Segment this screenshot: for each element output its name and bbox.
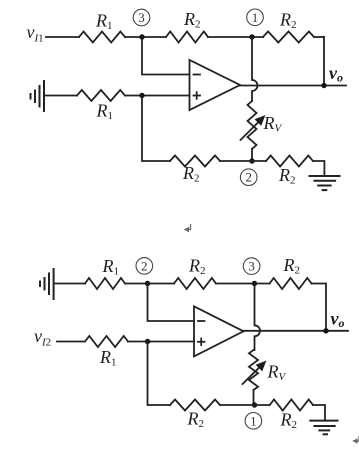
svg-text:vI1: vI1	[27, 22, 44, 45]
wire noninverting node down to bottom rail	[148, 342, 171, 406]
wire ground to R1	[54, 283, 85, 285]
paragraph return mark (between circuits)	[184, 225, 191, 233]
wire node 2 down to inverting input	[148, 284, 195, 322]
svg-text:R2: R2	[187, 409, 205, 431]
node at noninverting input	[139, 93, 144, 98]
node 3 junction dot	[139, 34, 144, 39]
node vI1 input label	[27, 22, 44, 45]
wire node 1 down with crossover hop over output	[252, 37, 258, 101]
resistor R2 (middle, bottom circuit)	[174, 256, 216, 290]
svg-text:R1: R1	[102, 256, 120, 278]
wire R2 to right corner down to output	[312, 284, 327, 331]
svg-text:R2: R2	[280, 410, 298, 432]
resistor R2 (bottom right, top circuit)	[266, 156, 313, 187]
wire R2 to node 3	[216, 283, 270, 285]
svg-text:2: 2	[141, 258, 148, 273]
node 2 junction dot	[145, 281, 150, 286]
node 1 circled label	[245, 413, 262, 430]
svg-text:R2: R2	[283, 255, 301, 277]
resistor R1 (top input)	[79, 11, 125, 43]
node 2 circled label	[240, 169, 257, 186]
svg-text:1: 1	[252, 10, 259, 25]
wire op-amp output to vo	[244, 330, 349, 332]
wire ground to R1	[44, 95, 77, 97]
svg-text:R1: R1	[95, 11, 113, 33]
wire between bottom resistors	[220, 160, 266, 162]
svg-text:3: 3	[248, 259, 255, 274]
svg-text:R2: R2	[182, 163, 200, 185]
resistor R2 (bottom left, bottom circuit)	[170, 400, 220, 431]
wire RV to node 2	[251, 149, 253, 161]
resistor R1 (vI2 input)	[85, 336, 128, 369]
node vo output label	[331, 309, 345, 331]
svg-text:R2: R2	[183, 9, 201, 31]
output node dot at vo	[323, 328, 328, 333]
node 1 circled label	[247, 9, 264, 26]
ground (earth, bottom circuit right)	[310, 421, 337, 435]
svg-text:vo: vo	[329, 63, 343, 85]
resistor R2 (bottom left, top circuit)	[170, 156, 220, 185]
wire R2 to node 1	[208, 36, 263, 38]
wire R2 to ground stem	[313, 405, 325, 421]
svg-text:RV: RV	[263, 113, 283, 135]
ground (left, top circuit)	[31, 81, 45, 111]
node 2 circled label	[136, 258, 153, 275]
op-amp U1	[190, 60, 241, 110]
variable resistor RV (top)	[241, 101, 283, 149]
svg-text:1: 1	[250, 413, 257, 428]
svg-text:RV: RV	[267, 362, 287, 384]
wire node 3 down with crossover hop over output	[255, 284, 261, 351]
wire R1 to node 2	[125, 283, 174, 285]
paragraph return mark (bottom right, clipped)	[353, 437, 359, 444]
resistor R2 (top right, bottom circuit)	[270, 255, 312, 289]
svg-text:vo: vo	[331, 309, 345, 331]
node 3 junction dot	[252, 281, 257, 286]
wire between bottom resistors	[220, 404, 270, 406]
node at noninverting input	[145, 339, 150, 344]
resistor R1 (top rail, bottom circuit)	[85, 256, 125, 289]
resistor R2 (bottom right, bottom circuit)	[270, 400, 313, 432]
svg-text:vI2: vI2	[34, 326, 51, 349]
ground (left, bottom circuit)	[40, 269, 54, 299]
wire RV to node 1	[253, 390, 255, 405]
svg-text:R1: R1	[96, 101, 114, 123]
resistor R2 (top middle)	[166, 9, 208, 43]
wire R2 to ground stem	[313, 161, 324, 176]
node vI2 input label	[34, 326, 51, 349]
svg-text:R2: R2	[279, 9, 297, 31]
wire vI2 to R1	[57, 341, 85, 343]
op-amp U2	[194, 306, 244, 356]
svg-text:R2: R2	[278, 165, 296, 187]
wire R1 to node 3	[125, 36, 166, 38]
wire node 3 down to inverting input	[142, 37, 190, 75]
resistor R2 (top right feedback)	[263, 9, 314, 42]
output node dot at vo	[321, 83, 326, 88]
ground (earth, top circuit right)	[310, 176, 340, 190]
wire R2 to right corner	[314, 36, 324, 38]
wire noninverting node down to bottom rail	[142, 96, 170, 162]
wire vI1 to R1	[46, 36, 79, 38]
svg-text:3: 3	[138, 10, 145, 25]
svg-text:2: 2	[245, 170, 252, 185]
node 2 junction dot	[249, 158, 254, 163]
wire right vertical down to output	[323, 37, 325, 86]
variable resistor RV (bottom)	[243, 350, 287, 390]
node 1 junction dot	[249, 34, 254, 39]
node 1 junction dot	[252, 402, 257, 407]
node 3 circled label	[133, 9, 150, 26]
svg-text:R2: R2	[188, 256, 206, 278]
node 3 circled label	[243, 258, 260, 275]
wire op-amp output to vo	[240, 85, 346, 87]
wire R1 to noninverting input	[128, 341, 194, 343]
wire R1 to noninverting node	[125, 95, 190, 97]
resistor R1 (non-inverting input)	[77, 90, 125, 122]
node vo output label	[329, 63, 343, 85]
svg-text:R1: R1	[99, 347, 117, 369]
